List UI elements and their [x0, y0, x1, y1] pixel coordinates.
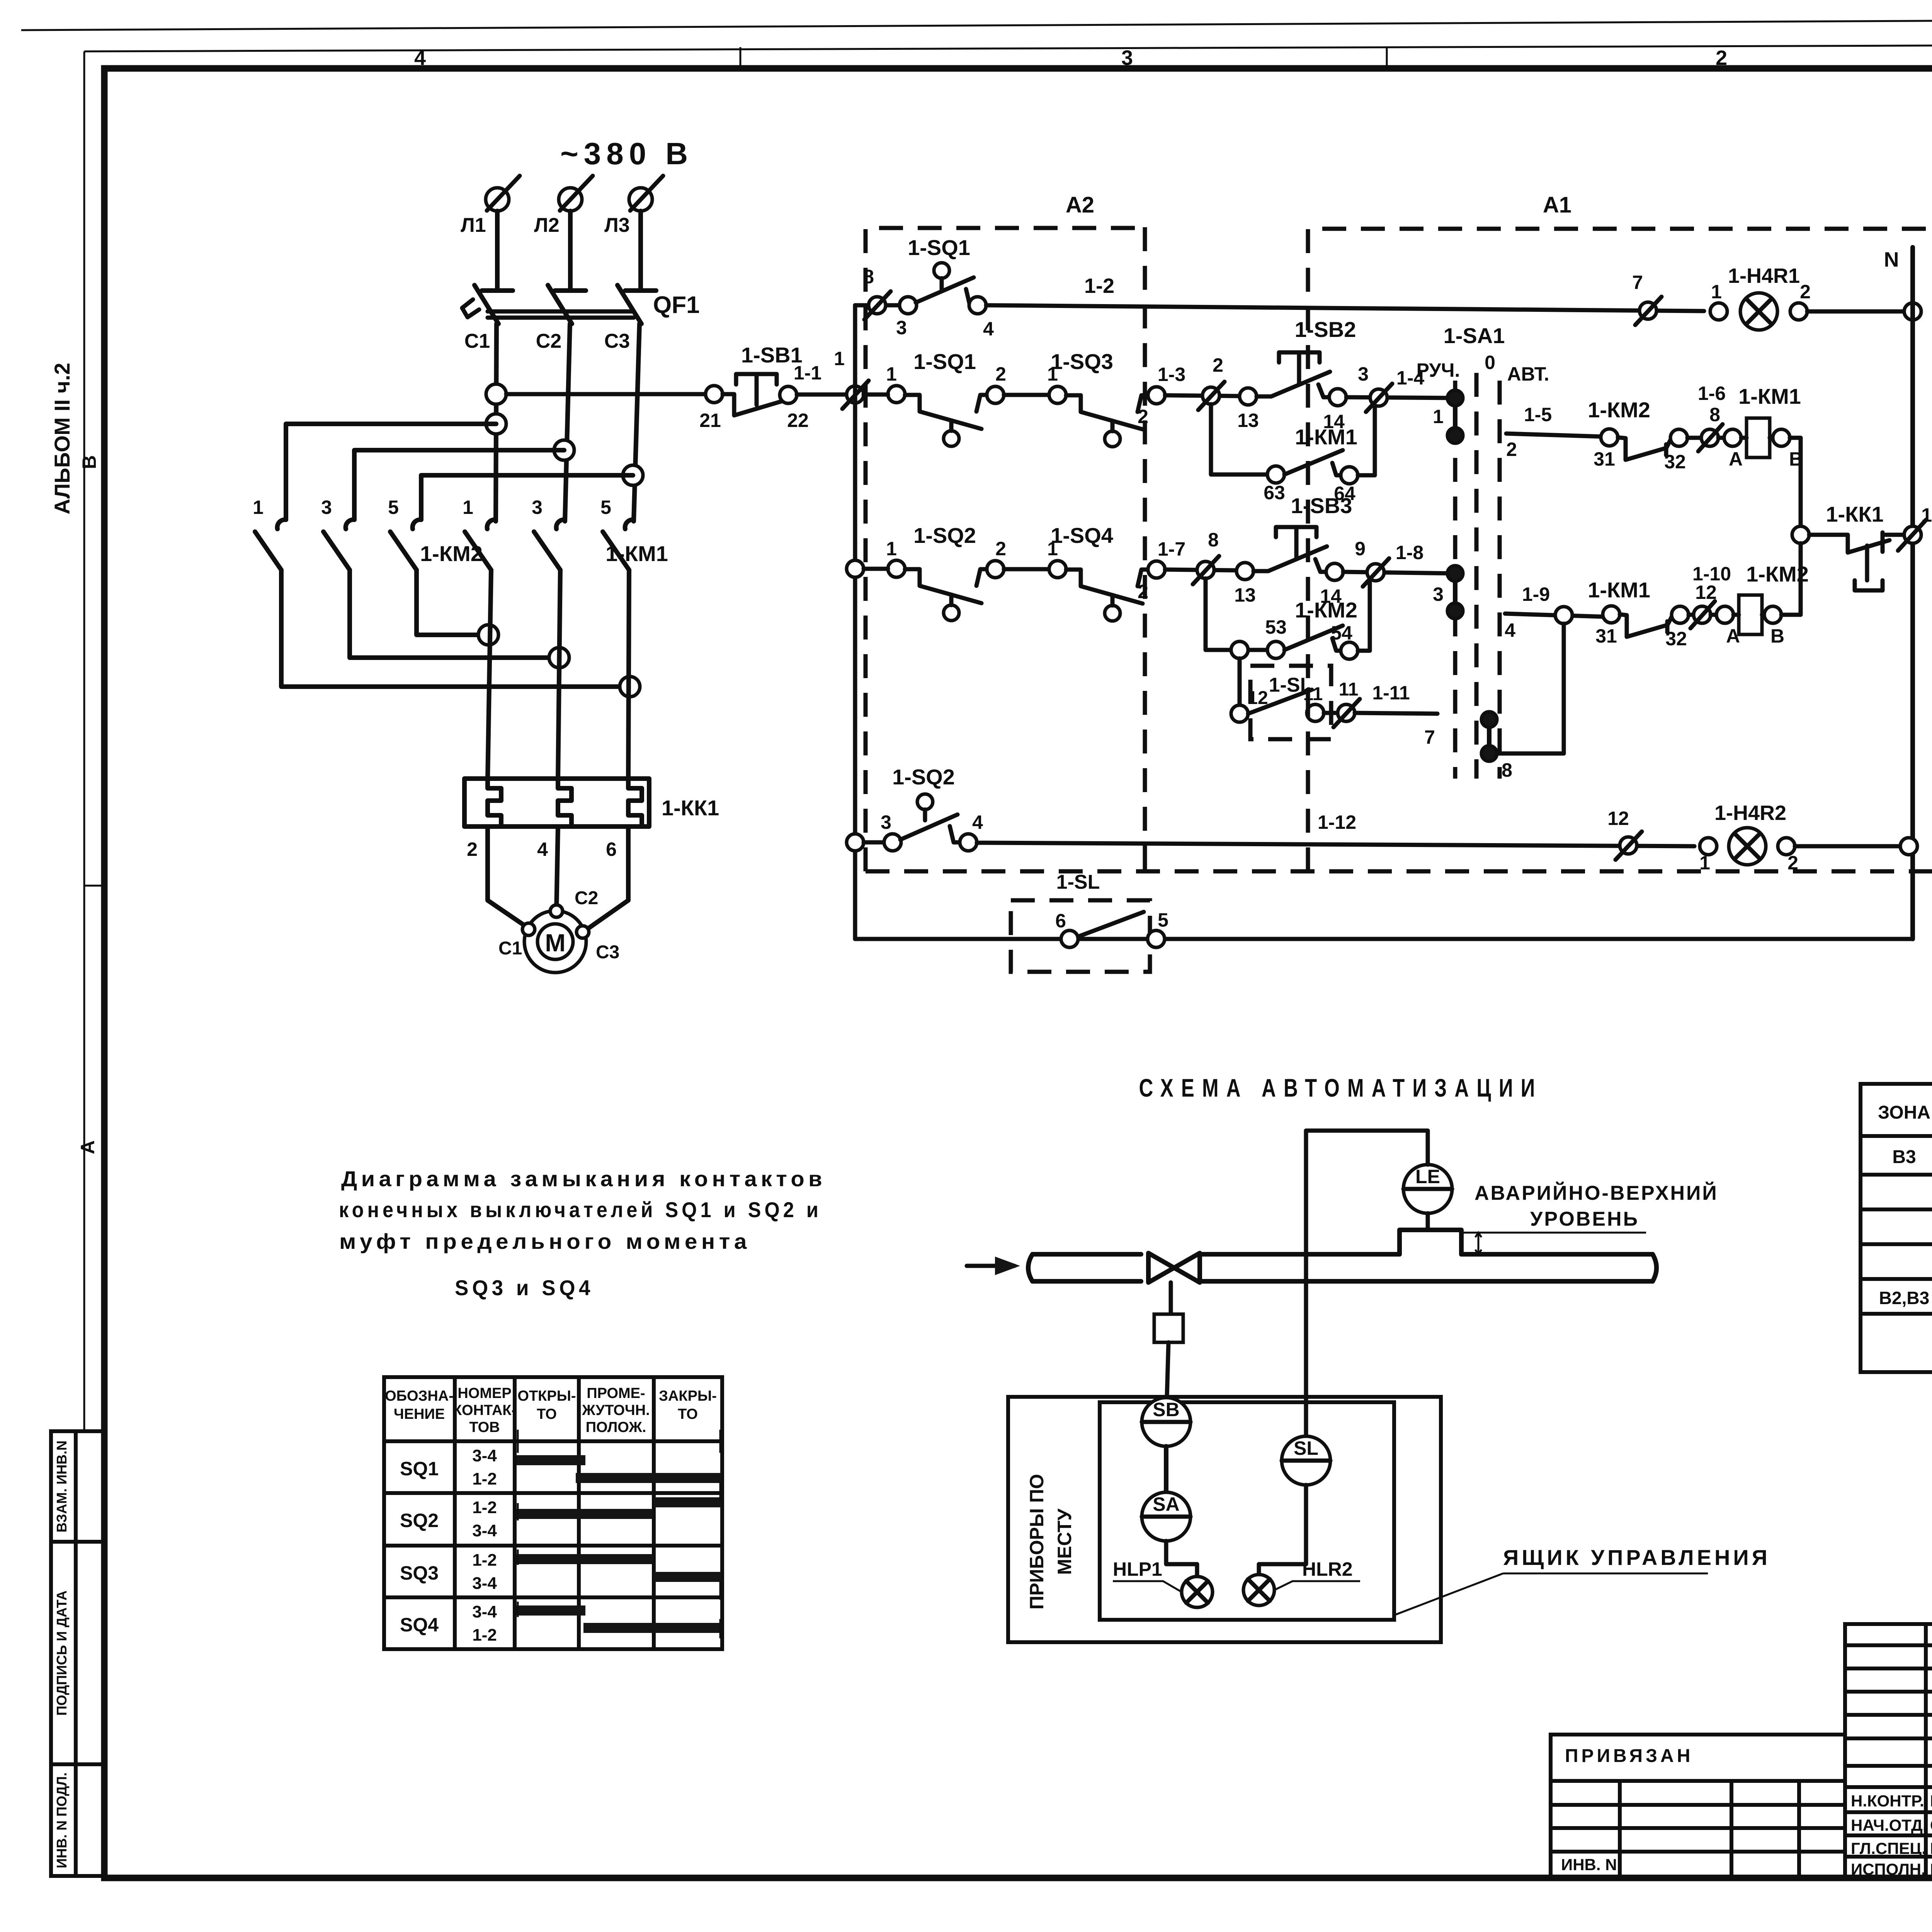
svg-text:3-4: 3-4 — [472, 1446, 497, 1465]
contactor KM2 pole3 — [413, 520, 421, 529]
thermal relay KK1 heater 1 — [488, 779, 501, 827]
svg-text:4: 4 — [537, 838, 548, 860]
svg-text:1: 1 — [1047, 538, 1058, 560]
svg-text:ИСПОЛН.: ИСПОЛН. — [1851, 1860, 1926, 1878]
pushbutton SB1 terminal 21 — [706, 386, 723, 403]
svg-text:ИНВ. N: ИНВ. N — [1561, 1855, 1617, 1874]
node C1 to KM2 loop — [486, 414, 506, 434]
wire 1-7 — [1165, 570, 1236, 570]
node on N line row1 — [1904, 303, 1921, 320]
svg-text:ПРИВЯЗАН: ПРИВЯЗАН — [1565, 1746, 1693, 1766]
svg-text:1-6: 1-6 — [1698, 383, 1726, 404]
svg-text:3: 3 — [321, 497, 332, 518]
pushbutton SB3 plunger — [1276, 527, 1316, 559]
svg-text:~380 В: ~380 В — [560, 136, 693, 171]
svg-text:7: 7 — [1424, 726, 1435, 748]
control box inner — [1100, 1402, 1394, 1620]
svg-text:НАЧ.ОТД.: НАЧ.ОТД. — [1851, 1816, 1927, 1834]
svg-text:8: 8 — [1709, 404, 1720, 425]
wire 1-12 — [977, 843, 1694, 846]
wire KK1 to motor C2 — [556, 827, 558, 912]
svg-text:2: 2 — [1800, 281, 1811, 303]
svg-text:31: 31 — [1594, 448, 1615, 470]
svg-text:4: 4 — [1505, 619, 1515, 641]
breaker QF1 pole 2 blade — [548, 285, 572, 324]
node KM1 pole1 join — [478, 625, 498, 645]
svg-text:В2,В3: В2,В3 — [1879, 1288, 1929, 1308]
SECTION:SA1 — [1417, 323, 1564, 781]
svg-text:ИНВ. N ПОДЛ.: ИНВ. N ПОДЛ. — [54, 1772, 70, 1868]
svg-text:1-Н4R1: 1-Н4R1 — [1728, 264, 1800, 287]
svg-text:УРОВЕНЬ: УРОВЕНЬ — [1530, 1208, 1639, 1230]
svg-text:1-SQ1: 1-SQ1 — [913, 349, 976, 374]
svg-text:РУЧ.: РУЧ. — [1417, 359, 1460, 381]
svg-text:1-SB3: 1-SB3 — [1291, 493, 1352, 518]
pushbutton SB3 terminal 13 — [1236, 563, 1253, 580]
N line — [1910, 247, 1915, 939]
thermal relay KK1 heater 2 — [558, 779, 571, 827]
svg-text:6: 6 — [606, 838, 617, 860]
svg-text:SА: SА — [1153, 1493, 1179, 1515]
wire 1-1 — [797, 393, 847, 397]
aux NC contact KM2 in 1-5 row — [1601, 429, 1618, 446]
svg-text:Л2: Л2 — [534, 214, 559, 236]
svg-text:N: N — [1884, 248, 1899, 271]
closure header texts — [385, 1385, 717, 1435]
svg-text:1-8: 1-8 — [1396, 542, 1423, 563]
pushbutton SB2 contact — [1257, 372, 1330, 396]
svg-text:11: 11 — [1339, 679, 1359, 700]
wire KM2 pole3 bottom cross — [417, 570, 488, 635]
phase terminal L3 — [629, 188, 652, 211]
svg-text:1-КМ1: 1-КМ1 — [1295, 425, 1357, 449]
closure row line 2 — [384, 1544, 722, 1548]
thermal relay KK1 body — [464, 779, 649, 827]
svg-text:1-КМ1: 1-КМ1 — [605, 541, 668, 566]
svg-text:12: 12 — [1607, 808, 1629, 829]
wire SL to lamp HLR2 — [1259, 1485, 1306, 1575]
svg-text:1-7: 1-7 — [1158, 538, 1185, 560]
svg-text:1: 1 — [253, 497, 264, 518]
closure header underline — [384, 1439, 722, 1443]
phase terminal L1 — [486, 188, 509, 211]
junction KK1 — [1792, 526, 1809, 543]
svg-text:Л1: Л1 — [461, 214, 486, 236]
wire SB to SA — [1164, 1446, 1168, 1492]
flow arrow — [967, 1264, 1014, 1268]
svg-text:1-1: 1-1 — [794, 362, 821, 384]
svg-text:3-4: 3-4 — [472, 1602, 497, 1621]
svg-text:1-11: 1-11 — [1372, 682, 1410, 704]
svg-text:1-SQ2: 1-SQ2 — [913, 523, 976, 548]
svg-text:4: 4 — [972, 811, 983, 833]
left stamp divider vertical — [74, 1431, 78, 1876]
motor terminal C1 — [522, 923, 535, 935]
level sensor 1-SL contact box — [1250, 666, 1331, 739]
contactor KM1 pole1 — [487, 520, 496, 529]
svg-text:1-2: 1-2 — [1084, 274, 1114, 298]
valve — [1148, 1253, 1200, 1282]
svg-text:63: 63 — [1264, 482, 1285, 503]
contactor KM1 pole3 — [625, 520, 634, 529]
svg-text:С2: С2 — [536, 330, 561, 352]
dashed box A2 — [866, 227, 1145, 871]
node on KM2 branch for level sensor — [1231, 641, 1248, 658]
closure table frame — [384, 1377, 722, 1649]
svg-text:3: 3 — [1433, 583, 1444, 605]
svg-text:ЖУТОЧН.: ЖУТОЧН. — [582, 1402, 650, 1418]
svg-text:ГЛ.СПЕЦ.: ГЛ.СПЕЦ. — [1851, 1839, 1926, 1857]
wire actuator to SB — [1167, 1342, 1168, 1397]
zone divider tick — [84, 885, 104, 887]
svg-text:SQ1: SQ1 — [400, 1458, 439, 1480]
closure row line 1 — [384, 1491, 722, 1495]
SQ4 pivot dangle — [1105, 605, 1120, 621]
bottom rail — [855, 937, 1913, 941]
pushbutton SB3 terminal 14 — [1326, 563, 1343, 580]
wire KM1 pole1 down — [488, 570, 491, 780]
motor M inner — [537, 924, 573, 959]
svg-text:SВ: SВ — [1153, 1399, 1179, 1420]
svg-text:1-SQ3: 1-SQ3 — [1051, 349, 1113, 374]
svg-text:ВЗАМ. ИНВ.N: ВЗАМ. ИНВ.N — [54, 1440, 70, 1532]
svg-text:А2: А2 — [1066, 192, 1094, 218]
svg-text:КОНТАК-: КОНТАК- — [453, 1402, 516, 1418]
closure col line 1 — [453, 1377, 457, 1649]
svg-text:LЕ: LЕ — [1415, 1166, 1440, 1187]
closure row line 3 — [384, 1595, 722, 1599]
svg-text:2: 2 — [995, 538, 1006, 560]
svg-text:1: 1 — [1433, 406, 1444, 427]
svg-text:БОРОДКИН: БОРОДКИН — [1930, 1792, 1932, 1810]
wire KM1 pole3 down — [628, 570, 629, 780]
title block left stack rows — [1845, 1643, 1932, 1647]
lamp HLR2 terminal 1 — [1700, 838, 1717, 855]
pushbutton SB2 plunger — [1279, 352, 1320, 384]
svg-text:ТО: ТО — [537, 1406, 557, 1422]
svg-text:1-2: 1-2 — [472, 1469, 497, 1488]
selector SA1 contact bar pos8 — [1487, 719, 1492, 753]
svg-text:2: 2 — [995, 363, 1006, 385]
left stamp divider h2 — [51, 1762, 104, 1766]
svg-text:С3: С3 — [604, 330, 630, 352]
svg-text:МЕСТУ: МЕСТУ — [1054, 1508, 1075, 1575]
left stamp divider h1 — [51, 1540, 104, 1544]
svg-text:ЯЩИК УПРАВЛЕНИЯ: ЯЩИК УПРАВЛЕНИЯ — [1503, 1545, 1770, 1570]
title block left stack verticals — [1924, 1624, 1928, 1878]
pushbutton SB1 terminal 22 — [780, 386, 797, 403]
svg-text:1-3: 1-3 — [1158, 364, 1185, 385]
svg-text:53: 53 — [1265, 616, 1287, 638]
svg-text:ЗАКРЫ-: ЗАКРЫ- — [659, 1388, 717, 1404]
svg-text:1-SL: 1-SL — [1056, 871, 1100, 893]
svg-text:ПРОМЕ-: ПРОМЕ- — [587, 1385, 645, 1401]
wire to level sensor contact — [1238, 658, 1242, 714]
svg-text:3-4: 3-4 — [472, 1574, 497, 1593]
terminal 11 crossed — [1324, 711, 1338, 715]
wire C1 column — [496, 324, 497, 521]
spec table frame — [1861, 1084, 1932, 1372]
wire L2 drop — [568, 211, 573, 290]
motor terminal C3 — [577, 926, 589, 938]
aux NC contact KM1 in 1-9 row — [1603, 606, 1620, 623]
svg-text:А: А — [77, 1140, 99, 1154]
svg-text:С1: С1 — [498, 938, 522, 959]
svg-text:1-10: 1-10 — [1692, 563, 1731, 585]
left stamp box — [51, 1431, 104, 1876]
pushbutton SB2 terminal 14 — [1329, 389, 1346, 406]
svg-text:М: М — [545, 929, 565, 957]
svg-text:АВТ.: АВТ. — [1507, 363, 1549, 385]
level line — [1461, 1232, 1646, 1234]
terminal 12 crossed 1-10 — [1694, 606, 1711, 623]
svg-text:1-2: 1-2 — [472, 1498, 497, 1517]
terminal 9 crossed row3 — [1367, 564, 1384, 581]
lamp HLR1 terminal 1 — [1710, 303, 1727, 320]
svg-text:1-КМ2: 1-КМ2 — [1295, 598, 1357, 622]
row2 wire SQ1 to SQ3 — [1004, 393, 1049, 397]
motor terminal C2 — [550, 905, 563, 917]
svg-text:32: 32 — [1664, 451, 1686, 473]
svg-text:ЧЕНИЕ: ЧЕНИЕ — [394, 1406, 445, 1422]
lamp HLR2 terminal 2 — [1778, 838, 1795, 855]
wire 1-4 — [1346, 397, 1455, 398]
wire KM2 loop phase3 — [421, 475, 633, 520]
sheet second top edge — [84, 43, 1932, 51]
sheet outer top edge — [21, 17, 1932, 30]
actuator box — [1154, 1314, 1183, 1342]
lamp HLR2 — [1243, 1575, 1274, 1605]
svg-text:1-12: 1-12 — [1318, 811, 1356, 833]
wire KM2 loop phase2 — [354, 450, 564, 520]
pushbutton SB2 terminal 13 — [1240, 388, 1257, 405]
breaker QF1 pole 1 blade — [474, 285, 498, 324]
wire 1-11 — [1355, 713, 1437, 714]
svg-text:2: 2 — [467, 838, 478, 860]
svg-text:БОРОДКИН: БОРОДКИН — [1930, 1839, 1932, 1857]
svg-text:1-КМ1: 1-КМ1 — [1588, 578, 1650, 602]
title block outline — [1845, 1624, 1932, 1878]
svg-text:2: 2 — [1506, 439, 1517, 460]
svg-text:1-2: 1-2 — [472, 1626, 497, 1645]
wire L1 drop — [495, 211, 500, 290]
svg-text:ОБОЗНА-: ОБОЗНА- — [385, 1388, 454, 1404]
left rail — [853, 305, 857, 939]
svg-text:8: 8 — [1502, 759, 1512, 781]
svg-text:НLR2: НLR2 — [1302, 1558, 1353, 1580]
svg-text:32: 32 — [1665, 628, 1687, 650]
SQ3 pivot dangle — [1105, 431, 1120, 447]
wire C3 column — [634, 324, 639, 521]
svg-text:7: 7 — [1632, 272, 1643, 293]
svg-text:муфт предельного момента: муфт предельного момента — [339, 1229, 751, 1253]
spec row lines — [1861, 1173, 1932, 1177]
terminal 7 crossed — [1639, 302, 1656, 319]
svg-text:1-SQ1: 1-SQ1 — [908, 235, 970, 260]
svg-text:ПРИБОРЫ ПО: ПРИБОРЫ ПО — [1026, 1474, 1048, 1609]
row1 wire to SQ1 — [855, 303, 900, 308]
terminal 8 crossed row1 — [869, 297, 886, 314]
svg-text:QF1: QF1 — [653, 292, 700, 318]
row3 wire SQ2 to SQ4 — [1004, 567, 1049, 571]
svg-text:ТО: ТО — [678, 1406, 698, 1422]
row3 junction on rail — [847, 560, 864, 577]
SECTION:SPEC — [1861, 1084, 1932, 1372]
svg-text:С2: С2 — [575, 888, 598, 908]
wire 1-5 row — [1506, 434, 1604, 437]
node on N line lamp2 row — [1900, 838, 1917, 855]
svg-text:1-SB2: 1-SB2 — [1295, 317, 1356, 342]
svg-text:1-КК1: 1-КК1 — [662, 796, 719, 820]
motor M outer — [524, 911, 586, 973]
closure col line 4 — [652, 1377, 656, 1649]
svg-text:SQ4: SQ4 — [400, 1614, 439, 1636]
svg-text:ОТКРЫ-: ОТКРЫ- — [517, 1388, 576, 1404]
wire 1-2 row1 to lamp — [986, 305, 1704, 311]
pipe right — [1200, 1254, 1653, 1281]
svg-text:1: 1 — [886, 538, 897, 560]
svg-text:1-Н4R2: 1-Н4R2 — [1714, 801, 1786, 825]
svg-text:5: 5 — [388, 497, 399, 518]
svg-text:3: 3 — [1358, 363, 1369, 385]
svg-text:А: А — [1729, 448, 1743, 470]
limit switch SQ1 top contact — [900, 297, 917, 314]
thermal relay KK1 heater 3 — [628, 779, 642, 827]
wire KM2 pole2 bottom cross — [350, 570, 559, 658]
svg-text:5: 5 — [600, 497, 611, 518]
node KM1 pole3 join — [620, 677, 640, 697]
spec header underline — [1861, 1134, 1932, 1138]
limit switch SQ1 top pivot — [934, 263, 949, 278]
control box outer — [1008, 1397, 1441, 1642]
limit switch SQ2 top pivot — [917, 794, 933, 810]
svg-text:6: 6 — [1055, 910, 1066, 932]
wire 1-3 — [1165, 395, 1240, 396]
level pocket — [1400, 1230, 1461, 1254]
level tick — [1475, 1233, 1481, 1254]
svg-text:13: 13 — [1234, 584, 1256, 606]
svg-text:3: 3 — [1121, 46, 1133, 70]
svg-text:АЛЬБОМ II ч.2: АЛЬБОМ II ч.2 — [50, 363, 74, 515]
wire SA1 auto branch — [1497, 624, 1564, 753]
wire KM2 coil up to KK1 junction — [1781, 543, 1801, 615]
closure col line 2 — [513, 1377, 517, 1649]
selector SA1 contact bar pos1 — [1453, 398, 1458, 435]
svg-text:22: 22 — [787, 410, 809, 431]
svg-text:2: 2 — [1213, 354, 1223, 376]
privyazan box — [1551, 1735, 1845, 1878]
wire KM2 loop phase1 — [286, 424, 496, 520]
terminal 8 crossed 1-6 — [1701, 429, 1718, 446]
closure col line 3 — [577, 1377, 581, 1649]
wire C2 column — [565, 324, 570, 521]
limit switch SQ2 top contact — [864, 840, 884, 845]
node C1 to SB1 row — [486, 384, 506, 404]
wire KK1 to motor C1 — [488, 827, 530, 929]
breaker QF1 pole 3 blade — [617, 285, 641, 324]
selector SA1 dashed line avt — [1498, 381, 1502, 779]
lamp HLR1 terminal 2 — [1790, 303, 1807, 320]
svg-text:3: 3 — [881, 811, 891, 833]
SECTION:CONTROL — [699, 192, 1932, 972]
lamp HLR2 — [1729, 828, 1766, 865]
row 1-12 junction on rail — [847, 834, 864, 851]
svg-text:21: 21 — [699, 410, 721, 431]
terminal 8 crossed row3 — [1197, 561, 1214, 578]
phase terminal L2 — [559, 188, 582, 211]
svg-text:1: 1 — [463, 497, 473, 518]
svg-text:12: 12 — [1695, 582, 1717, 603]
SECTION:TITLEBLOCK — [1551, 1624, 1932, 1919]
terminal 15 crossed on N — [1904, 526, 1921, 543]
svg-text:Н.КОНТР.: Н.КОНТР. — [1851, 1792, 1924, 1810]
svg-text:ПОДПИСЬ И ДАТА: ПОДПИСЬ И ДАТА — [54, 1590, 70, 1716]
svg-text:1: 1 — [1711, 281, 1722, 303]
svg-text:Диаграмма замыкания контактов: Диаграмма замыкания контактов — [341, 1167, 826, 1191]
svg-text:1-9: 1-9 — [1522, 583, 1550, 605]
svg-text:54: 54 — [1331, 622, 1352, 644]
aux contact KM1 parallel branch — [1211, 404, 1267, 474]
pushbutton SB3 contact — [1253, 546, 1327, 571]
sheet left edge — [83, 51, 85, 1431]
svg-text:5: 5 — [1158, 909, 1168, 931]
SECTION:CLOSURE — [339, 1167, 826, 1649]
SQ2 pivot dangle — [944, 605, 959, 621]
terminal 2 crossed row2 — [1202, 387, 1219, 404]
valve actuator link — [1169, 1282, 1173, 1314]
wire LE to pocket — [1426, 1213, 1430, 1230]
svg-text:В: В — [78, 455, 100, 469]
svg-text:1: 1 — [834, 348, 845, 369]
contactor KM2 pole2 — [346, 520, 354, 529]
svg-text:1-SА1: 1-SА1 — [1444, 323, 1505, 348]
svg-text:СМИРНОВ: СМИРНОВ — [1930, 1816, 1932, 1834]
svg-text:8: 8 — [1208, 529, 1219, 551]
svg-text:SQ3 и SQ4: SQ3 и SQ4 — [455, 1276, 594, 1300]
svg-text:В: В — [1770, 625, 1784, 647]
node KM1 pole2 join — [549, 648, 569, 668]
thermal contact T symbol — [1855, 546, 1883, 590]
dashed bottom shared A1 A2 — [866, 869, 1932, 874]
breaker QF1 linkage bar — [488, 310, 634, 314]
contactor KM2 pole1 — [277, 520, 286, 529]
svg-text:13: 13 — [1237, 410, 1259, 431]
svg-text:конечных выключателей SQ1 и SQ: конечных выключателей SQ1 и SQ2 и — [339, 1197, 822, 1222]
svg-text:4: 4 — [414, 46, 426, 70]
svg-text:НОМЕР: НОМЕР — [457, 1385, 511, 1401]
SECTION:AUTO — [967, 1073, 1770, 1642]
wire 1-8 — [1343, 572, 1455, 573]
svg-text:ЗОНА: ЗОНА — [1878, 1102, 1930, 1123]
svg-text:3: 3 — [896, 317, 907, 338]
svg-text:1-КМ2: 1-КМ2 — [1588, 398, 1650, 422]
junction SA1 auto branch — [1555, 607, 1572, 624]
svg-text:1-SQ2: 1-SQ2 — [892, 765, 955, 789]
level element LE — [1403, 1165, 1452, 1213]
svg-text:4: 4 — [983, 318, 994, 340]
instrument SL — [1282, 1436, 1330, 1485]
svg-text:1-КК1: 1-КК1 — [1826, 502, 1883, 526]
selector SA1 dashed line ruch — [1453, 381, 1458, 779]
wire lamp2 to N — [1795, 844, 1909, 849]
wire KM2 pole1 bottom cross — [281, 570, 630, 687]
svg-text:0: 0 — [1485, 352, 1495, 373]
instrument SA — [1142, 1492, 1190, 1541]
svg-text:1: 1 — [886, 363, 897, 385]
wire LE to SL — [1306, 1131, 1428, 1436]
svg-text:3: 3 — [532, 497, 543, 518]
svg-text:9: 9 — [1355, 538, 1366, 560]
